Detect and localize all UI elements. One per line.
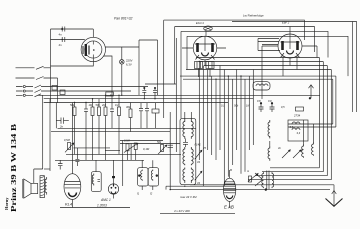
- svg-text:6,3V: 6,3V: [126, 62, 132, 66]
- svg-text:3,3: 3,3: [297, 131, 301, 135]
- svg-text:E AB: E AB: [224, 205, 234, 210]
- svg-text:3,3: 3,3: [290, 125, 294, 129]
- svg-text:0,1: 0,1: [115, 103, 119, 107]
- svg-text:0,5: 0,5: [281, 105, 285, 109]
- svg-text:1 2003: 1 2003: [97, 204, 107, 208]
- svg-text:C8: C8: [257, 99, 261, 103]
- svg-text:30k: 30k: [126, 105, 131, 109]
- svg-text:0,1: 0,1: [221, 104, 225, 108]
- svg-text:0,1M: 0,1M: [143, 147, 150, 151]
- svg-text:50k: 50k: [157, 140, 162, 144]
- svg-text:f 141: f 141: [195, 143, 202, 147]
- svg-text:C9: C9: [268, 99, 272, 103]
- svg-text:4n: 4n: [59, 33, 63, 37]
- svg-text:KL4: KL4: [65, 202, 73, 207]
- svg-text:4 x 43 V 400: 4 x 43 V 400: [174, 209, 190, 213]
- svg-text:0,5M: 0,5M: [124, 139, 131, 143]
- svg-text:Prinz 39 B W 134 B: Prinz 39 B W 134 B: [10, 124, 18, 212]
- svg-text:4n: 4n: [59, 43, 63, 47]
- svg-text:Horny: Horny: [4, 197, 9, 210]
- svg-text:0,5M: 0,5M: [64, 138, 71, 142]
- svg-text:50k: 50k: [234, 104, 239, 108]
- svg-text:50k: 50k: [96, 103, 101, 107]
- svg-text:AMC 1: AMC 1: [100, 198, 111, 202]
- svg-text:Lw Reihenfolge: Lw Reihenfolge: [243, 14, 264, 18]
- svg-text:EBF 2: EBF 2: [282, 21, 290, 25]
- svg-text:25: 25: [202, 146, 206, 150]
- svg-text:max 43 V 4M: max 43 V 4M: [180, 195, 197, 199]
- svg-text:Pan 801=32: Pan 801=32: [114, 17, 132, 21]
- svg-text:2n: 2n: [59, 125, 64, 129]
- svg-text:2734: 2734: [293, 114, 301, 118]
- svg-text:ECH 4: ECH 4: [196, 21, 204, 25]
